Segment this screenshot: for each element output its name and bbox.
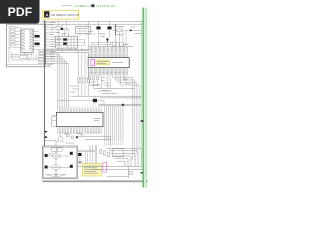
- capacitor C27 outline: [119, 42, 123, 46]
- wire rail mid right: [71, 95, 142, 97]
- IC2 top pin row: [58, 108, 101, 112]
- net label D601: [131, 26, 136, 28]
- resonator box X21: [76, 26, 91, 33]
- IC U601 name text: [113, 61, 124, 63]
- wire rail above IC1: [88, 46, 133, 48]
- wire columns continue: [79, 82, 89, 96]
- wire row1: [48, 151, 70, 156]
- IC U601 part label (yellow highlight): [96, 60, 110, 65]
- net label IC601: [88, 31, 94, 33]
- SECTION: bottom right: [42, 105, 147, 183]
- resistor array R13: [10, 33, 15, 35]
- filter rails: [55, 36, 84, 48]
- detail box outline: [7, 24, 46, 67]
- wire pin extensions below IC2: [58, 131, 101, 134]
- wire main vertical bus: [43, 20, 45, 146]
- SECTION: below IC1: [57, 71, 141, 160]
- resistor array R15: [10, 40, 15, 42]
- wire bus double rail: [99, 105, 142, 106]
- output stage box outer: [42, 146, 77, 178]
- IC U11 pin boxes right column: [30, 30, 33, 50]
- wire step bends: [90, 86, 135, 94]
- capacitor C24 (dark, polarized): [96, 26, 100, 29]
- SECTION: left connector bus: [44, 20, 55, 146]
- wires around Q21: [58, 21, 68, 36]
- filter sub box: [55, 36, 77, 48]
- wire R24 run: [112, 30, 129, 46]
- net label: [56, 33, 66, 34]
- resistor R32: [81, 78, 83, 82]
- resistor R71: [100, 149, 102, 153]
- wire right vertical along border: [140, 21, 142, 169]
- wire bus companion line: [45, 21, 47, 64]
- schematic bottom border: [42, 180, 147, 182]
- resistor array R12: [10, 30, 15, 32]
- IC U601 body: [88, 58, 129, 68]
- wire mid columns: [79, 51, 89, 78]
- note label (yellow highlight): [82, 163, 101, 176]
- relay box K71: [113, 149, 124, 157]
- resistor R74: [129, 172, 132, 175]
- SECTION: bottom box: [42, 27, 135, 178]
- IC2 left pin wires: [52, 116, 57, 121]
- wire cap C64 legs: [57, 96, 104, 104]
- IC U602 name text: [94, 119, 100, 121]
- wires caps: [99, 21, 110, 46]
- wire step bends right: [107, 148, 142, 166]
- label text dashes: [97, 62, 109, 64]
- wire bus to box: [44, 141, 56, 146]
- wire C71 legs: [79, 151, 81, 160]
- SECTION: top header: [41, 4, 147, 24]
- fold border light band: [144, 8, 147, 188]
- resistor R61: [89, 76, 91, 80]
- capacitor C21 (dark): [61, 28, 63, 30]
- title section icon: [44, 11, 49, 17]
- diode bridge D72: [51, 164, 60, 172]
- wire bus lower runs: [44, 49, 91, 52]
- junction dot on bus: [122, 104, 124, 106]
- fold border line B: [145, 8, 147, 188]
- wire dark tap: [115, 24, 117, 35]
- net name dashes at bundle ends: [105, 142, 123, 145]
- resistor R31: [78, 78, 80, 82]
- title highlight box: [43, 10, 79, 19]
- note text dashes: [84, 166, 99, 173]
- transistor pad Q73 (dark): [45, 166, 48, 169]
- fold border line A: [142, 8, 144, 188]
- SECTION: IC1: [88, 47, 129, 71]
- wire row2: [48, 160, 70, 168]
- wire verticals to IC2: [58, 52, 69, 108]
- capacitor C23 (dark): [63, 43, 67, 45]
- wire stubs IC right: [33, 31, 40, 49]
- svg-text:CD SERVO CIRCUIT: CD SERVO CIRCUIT: [51, 13, 80, 17]
- connector P601 (pink highlight): [91, 59, 95, 65]
- wires resonator: [80, 24, 86, 36]
- SECTION: green border: [141, 8, 147, 188]
- wire left pins lower drop: [90, 75, 102, 88]
- wire jog: [90, 43, 128, 45]
- resistor array R14: [10, 37, 15, 39]
- capacitor C12 (dark bar): [35, 43, 40, 46]
- wire drops into filter: [58, 34, 68, 37]
- detail box inner border line: [7, 64, 46, 66]
- transistor pad Q71 (dark): [45, 154, 48, 157]
- IC1 pin numbers bottom: [89, 72, 128, 73]
- wire short stub at border: [135, 33, 143, 35]
- resistor R65: [66, 135, 69, 137]
- net labels column: [50, 23, 56, 64]
- wire below IC runs: [10, 53, 39, 60]
- label box X11: [20, 55, 27, 58]
- wire stubs to IC left: [9, 28, 21, 48]
- resistor R63: [97, 76, 99, 80]
- transistor Q21: [63, 28, 66, 31]
- wire double run from box: [78, 150, 95, 151]
- link icon box: [91, 4, 94, 7]
- IC U11 body: [21, 29, 33, 53]
- wires below filter: [58, 48, 82, 52]
- svg-text:PDF: PDF: [8, 5, 33, 19]
- SECTION: upper mid circuit: [44, 21, 142, 169]
- net labels right top: [99, 27, 124, 37]
- resistor R24: [117, 29, 122, 32]
- svg-text:4-4 SYSCON_CKT: 4-4 SYSCON_CKT: [96, 6, 116, 8]
- capacitor C26 outline: [112, 42, 116, 46]
- wire verticals into note: [85, 145, 96, 163]
- label box L2: [57, 148, 62, 151]
- IC2 pin numbers bottom: [58, 131, 101, 132]
- connector pin stubs: [46, 23, 50, 64]
- resistor array R11: [10, 27, 15, 29]
- IC2 bottom pin row: [58, 127, 101, 131]
- diode D22 arrow: [130, 29, 133, 31]
- diode D21: [106, 39, 109, 42]
- wire box bottom exit: [46, 171, 66, 178]
- SECTION: badge: [0, 0, 40, 24]
- wire left feeder vertical: [86, 21, 104, 47]
- PDF badge: [0, 0, 40, 24]
- diode D64 on bus: [45, 136, 48, 138]
- wire pin extensions below IC1: [89, 71, 128, 75]
- wire right pins bend to right columns: [107, 75, 139, 88]
- diode bridge D71: [51, 152, 60, 160]
- resistor R72: [104, 151, 106, 155]
- net labels mid: [70, 86, 79, 92]
- resistor R21: [56, 26, 60, 29]
- wire link underline top: [62, 5, 72, 7]
- transistor Q61: [58, 137, 63, 142]
- diode D63 on bus: [45, 131, 48, 133]
- label box L1: [52, 148, 57, 151]
- resistor R22: [57, 38, 60, 40]
- capacitor C71 (dark): [78, 153, 81, 156]
- capacitor block C65 outline: [52, 117, 57, 127]
- IC2 pin numbers top: [58, 107, 101, 108]
- IC1 pin numbers top: [89, 54, 128, 55]
- diode D21 wires: [106, 37, 109, 46]
- wire bus bends to IC2 columns: [46, 52, 69, 63]
- transistor pad Q72 (dark): [70, 152, 73, 155]
- IC1 top pin row: [89, 54, 128, 58]
- wire Q61 leads: [57, 134, 65, 142]
- SECTION: mid left: [46, 51, 89, 109]
- net labels below IC2: [64, 133, 84, 143]
- wire rail mid right 2: [100, 97, 141, 99]
- ground GND1: [77, 161, 82, 163]
- SECTION: IC2: [52, 107, 103, 131]
- resistor R33: [84, 78, 86, 82]
- diode D62: [76, 136, 79, 139]
- resistor R23: [57, 42, 60, 44]
- wire drop to border: [107, 166, 129, 177]
- resonator text: [77, 29, 88, 31]
- wire inner left vertical: [8, 26, 10, 63]
- resistor R62: [93, 76, 95, 80]
- output stage box inner: [44, 147, 77, 177]
- wire bus bottom: [78, 166, 148, 169]
- wire feeders above IC1 pins: [89, 47, 128, 53]
- wire top rail 1: [41, 20, 147, 22]
- SECTION: inset detail box: [7, 24, 46, 67]
- wire top rail 2: [41, 23, 147, 25]
- resistor R73: [108, 153, 110, 157]
- meter M71: [55, 174, 57, 176]
- capacitor C25 (dark, polarized): [107, 26, 111, 29]
- transistor pad Q74 (dark): [70, 165, 73, 168]
- wire runs right: [78, 137, 111, 146]
- junction mark on border: [141, 120, 144, 122]
- IC U11 pin boxes left column: [22, 30, 25, 50]
- wire right columns down: [133, 78, 140, 161]
- capacitor C22 (dark): [63, 38, 67, 40]
- IC U602 body: [56, 112, 103, 126]
- resistor R34: [87, 78, 89, 82]
- resistor R66: [71, 136, 74, 138]
- junction pad on border: [141, 172, 144, 174]
- wire bundle verticals: [105, 105, 123, 142]
- wire to border: [133, 29, 142, 31]
- IC1 bottom pin row: [89, 68, 128, 72]
- capacitor C11 (dark bar): [35, 35, 40, 38]
- capacitor C64 (dark polarized): [93, 99, 97, 102]
- resistor array R16: [10, 44, 15, 46]
- net labels below IC1: [89, 78, 110, 91]
- connector P602 (pink highlight): [103, 162, 107, 172]
- connector CN11 pin boxes: [39, 50, 44, 64]
- SECTION: below IC2: [44, 131, 110, 147]
- net label stubs: [47, 65, 53, 66]
- svg-text:« 4-2 SERVO_CKT: « 4-2 SERVO_CKT: [74, 6, 94, 8]
